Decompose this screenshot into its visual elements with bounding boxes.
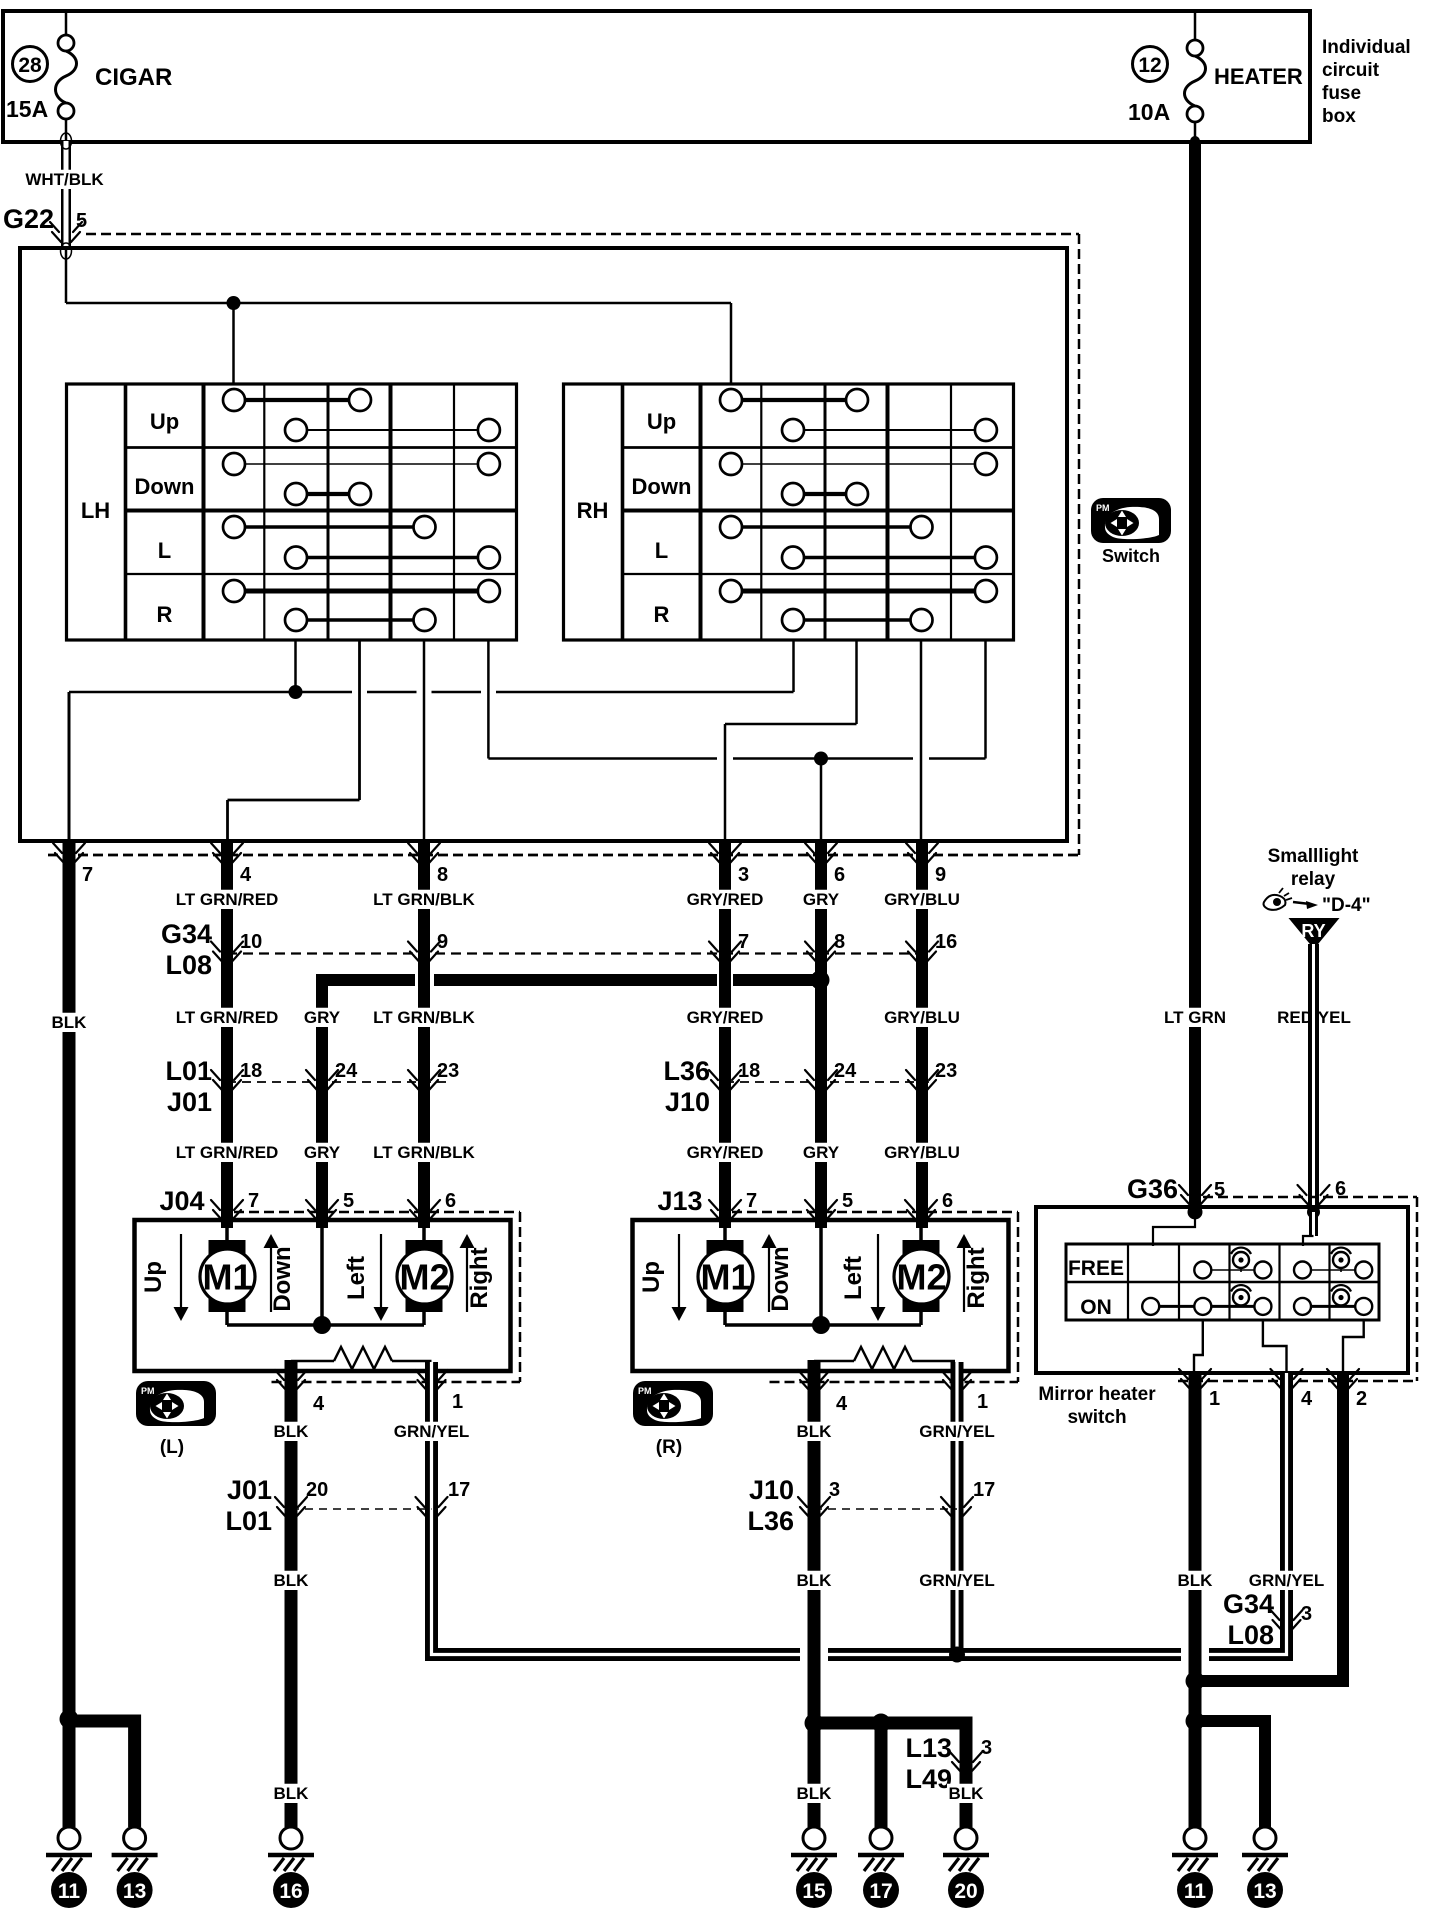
svg-text:PM: PM <box>141 1386 155 1396</box>
svg-text:23: 23 <box>935 1060 957 1082</box>
svg-text:Down: Down <box>269 1246 296 1311</box>
svg-text:8: 8 <box>834 931 845 953</box>
svg-text:6: 6 <box>834 864 845 886</box>
svg-text:GRY/BLU: GRY/BLU <box>884 1008 960 1027</box>
mirror heater resistor (left) <box>291 1360 334 1363</box>
ground 15 <box>791 1827 837 1871</box>
svg-text:BLK: BLK <box>274 1784 310 1803</box>
svg-text:BLK: BLK <box>949 1784 985 1803</box>
svg-text:PM: PM <box>638 1386 652 1396</box>
ground 11 (right) <box>1172 1827 1218 1871</box>
wire colour labels row C <box>176 1143 278 1162</box>
svg-text:17: 17 <box>869 1880 892 1903</box>
svg-text:17: 17 <box>973 1479 995 1501</box>
svg-text:M2: M2 <box>896 1257 946 1298</box>
svg-text:5: 5 <box>842 1190 853 1212</box>
svg-text:20: 20 <box>306 1479 328 1501</box>
svg-text:J01: J01 <box>227 1475 272 1505</box>
svg-text:HEATER: HEATER <box>1214 64 1303 89</box>
svg-text:G22: G22 <box>3 204 54 234</box>
svg-text:BLK: BLK <box>274 1422 310 1441</box>
left mirror assembly dashed boundary <box>234 1211 520 1214</box>
svg-text:18: 18 <box>738 1060 760 1082</box>
RH contact circles <box>720 389 742 411</box>
PM icon left mirror <box>136 1381 216 1426</box>
junction dot GRY bus <box>811 971 830 990</box>
svg-text:13: 13 <box>1253 1880 1276 1903</box>
labels BLK row F middle <box>795 1784 833 1803</box>
svg-text:Up: Up <box>150 409 179 434</box>
svg-text:BLK: BLK <box>274 1571 310 1590</box>
fuse F12 HEATER 10A <box>1185 11 1206 141</box>
svg-text:LT GRN/BLK: LT GRN/BLK <box>373 1008 475 1027</box>
right mirror assembly dashed boundary <box>732 1211 1018 1214</box>
svg-text:J01: J01 <box>167 1087 212 1117</box>
wire GRY pin6 run <box>815 839 827 1228</box>
svg-text:16: 16 <box>279 1880 302 1903</box>
svg-text:7: 7 <box>746 1190 757 1212</box>
wire BLK heater switch pin1 to ground 11 <box>1189 1373 1202 1827</box>
svg-text:R: R <box>654 602 670 627</box>
circled 28 fuse number <box>13 47 48 82</box>
heater switch contact table <box>1066 1244 1379 1320</box>
svg-text:L49: L49 <box>905 1764 952 1794</box>
junction dot G36 pin6 <box>1307 1206 1320 1219</box>
svg-text:3: 3 <box>1301 1603 1312 1625</box>
svg-text:LT GRN/RED: LT GRN/RED <box>176 890 279 909</box>
RH mirror switch table frame <box>564 384 1014 640</box>
svg-text:Up: Up <box>140 1261 167 1293</box>
wire pin6 into heater switch <box>1309 1212 1318 1236</box>
svg-text:15: 15 <box>802 1880 826 1903</box>
svg-text:GRY: GRY <box>304 1143 341 1162</box>
wire GRY/RED pin3 run <box>719 839 731 1228</box>
wire LH terminal c2 drop to common <box>294 640 297 692</box>
svg-text:Mirror heater: Mirror heater <box>1038 1384 1156 1405</box>
svg-text:J13: J13 <box>657 1186 702 1216</box>
wire BLK left mirror pin4 to ground 16 <box>285 1360 298 1827</box>
wire heater switch output pin4 <box>1263 1320 1287 1373</box>
wire RH terminal c4 drop to pin9 <box>920 640 923 843</box>
right mirror connector pins 4 and 1 <box>798 1370 830 1390</box>
svg-text:J10: J10 <box>749 1475 794 1505</box>
mirror switch solid box <box>20 248 1067 841</box>
LH contact circles <box>223 389 245 411</box>
svg-text:24: 24 <box>335 1060 358 1082</box>
svg-text:GRN/YEL: GRN/YEL <box>394 1422 470 1441</box>
svg-text:L01: L01 <box>165 1056 212 1086</box>
svg-text:12: 12 <box>1138 54 1161 77</box>
svg-text:10: 10 <box>240 931 262 953</box>
svg-text:Right: Right <box>963 1247 990 1308</box>
ground 11 (left) <box>46 1827 92 1871</box>
mirror heater switch box <box>1036 1207 1408 1373</box>
svg-text:L08: L08 <box>1227 1620 1274 1650</box>
ground 13 (left) <box>112 1827 158 1871</box>
svg-text:G34: G34 <box>1223 1589 1274 1619</box>
ground 17 <box>858 1827 904 1871</box>
svg-text:GRY/BLU: GRY/BLU <box>884 890 960 909</box>
svg-text:G36: G36 <box>1127 1174 1178 1204</box>
svg-text:GRY/BLU: GRY/BLU <box>884 1143 960 1162</box>
svg-text:BLK: BLK <box>797 1784 833 1803</box>
wire colour labels row A <box>176 890 278 909</box>
right mirror assembly box <box>633 1220 1009 1371</box>
svg-text:M2: M2 <box>399 1257 449 1298</box>
svg-text:Left: Left <box>343 1256 370 1300</box>
wire RH terminal c5 drop <box>984 640 987 759</box>
svg-text:1: 1 <box>977 1391 988 1413</box>
heater switch ON row contacts <box>1151 1305 1263 1308</box>
svg-text:WHT/BLK: WHT/BLK <box>25 170 104 189</box>
LH contact bridge lines <box>234 398 360 402</box>
svg-text:GRN/YEL: GRN/YEL <box>919 1422 995 1441</box>
svg-text:Up: Up <box>638 1261 665 1293</box>
junction dot motor common (left) <box>313 1316 331 1334</box>
svg-text:GRY/RED: GRY/RED <box>687 1143 764 1162</box>
wire BLK branch bar to grounds 17 and 20 <box>814 1723 966 1827</box>
svg-text:17: 17 <box>448 1479 470 1501</box>
svg-text:R: R <box>157 602 173 627</box>
svg-text:4: 4 <box>240 864 252 886</box>
junction dot right BLK branch <box>805 1714 824 1733</box>
junction dot feed to LH switch <box>227 296 241 310</box>
svg-text:GRN/YEL: GRN/YEL <box>1249 1571 1325 1590</box>
individual circuit fuse box outline <box>3 11 1310 142</box>
svg-text:L36: L36 <box>747 1506 794 1536</box>
svg-text:24: 24 <box>834 1060 857 1082</box>
label BLK row E left <box>272 1571 310 1590</box>
svg-text:9: 9 <box>935 864 946 886</box>
svg-text:Smalllight: Smalllight <box>1268 846 1359 867</box>
svg-text:23: 23 <box>437 1060 459 1082</box>
wire GRN/YEL mid segment (double line) <box>828 1648 1181 1661</box>
svg-text:ON: ON <box>1080 1296 1112 1319</box>
svg-text:3: 3 <box>981 1737 992 1759</box>
wire LT GRN/BLK pin8 run <box>418 839 430 1228</box>
wire motor commons (left) <box>225 1311 229 1325</box>
svg-text:18: 18 <box>240 1060 262 1082</box>
left mirror assembly box <box>135 1220 511 1371</box>
svg-text:Down: Down <box>135 474 195 499</box>
wire heater switch output pin1 <box>1194 1320 1203 1373</box>
wire motor commons (right) <box>723 1311 727 1325</box>
svg-text:BLK: BLK <box>52 1013 88 1032</box>
PM icon right mirror <box>633 1381 713 1426</box>
junction dot to pin6 <box>814 752 828 766</box>
label WHT/BLK <box>26 170 104 189</box>
svg-text:RY: RY <box>1301 921 1325 941</box>
mirror heater resistor (right) <box>814 1360 854 1363</box>
svg-text:Switch: Switch <box>1102 546 1160 566</box>
svg-text:LT GRN/BLK: LT GRN/BLK <box>373 890 475 909</box>
junction dot left BLK branch <box>60 1710 79 1729</box>
labels BLK GRN/YEL row D right <box>795 1422 833 1441</box>
svg-text:GRY/RED: GRY/RED <box>687 1008 764 1027</box>
svg-text:RH: RH <box>577 498 609 523</box>
svg-text:2: 2 <box>1356 1388 1367 1410</box>
label BLK row F left <box>272 1784 310 1803</box>
svg-text:16: 16 <box>935 931 957 953</box>
svg-text:13: 13 <box>123 1880 146 1903</box>
heater switch FREE row contacts <box>1203 1269 1263 1271</box>
wire RED/YEL from smalllight relay (double line) <box>1308 944 1319 1212</box>
svg-text:GRY/RED: GRY/RED <box>687 890 764 909</box>
ground 16 <box>268 1827 314 1871</box>
svg-text:fuse: fuse <box>1322 83 1361 104</box>
mirror switch connector pins at dashed line <box>53 843 85 863</box>
svg-text:L: L <box>655 538 668 563</box>
wire feed drop to RH switch <box>730 303 733 385</box>
circled 12 fuse number <box>1133 47 1168 82</box>
svg-text:BLK: BLK <box>797 1571 833 1590</box>
svg-text:3: 3 <box>829 1479 840 1501</box>
junction dot motor common (right) <box>812 1316 830 1334</box>
wire branch to ground 13 (right) <box>1195 1721 1265 1827</box>
motor M2 (right) <box>919 1220 923 1242</box>
svg-text:LT GRN: LT GRN <box>1164 1008 1226 1027</box>
svg-text:Down: Down <box>767 1246 794 1311</box>
wire GRY/BLU pin9 run <box>916 839 928 1228</box>
junction dot BLK branch to ground 13 <box>1186 1712 1205 1731</box>
wire GRY branch drop to J04 pin5 <box>322 980 415 1228</box>
svg-text:4: 4 <box>836 1393 848 1415</box>
wire LT GRN/RED pin4 run <box>221 839 233 1228</box>
svg-text:PM: PM <box>1096 503 1110 513</box>
svg-text:BLK: BLK <box>1178 1571 1214 1590</box>
svg-text:J04: J04 <box>159 1186 204 1216</box>
heater switch connector pins 1 4 2 <box>1179 1369 1211 1389</box>
svg-text:8: 8 <box>437 864 448 886</box>
svg-text:(R): (R) <box>656 1437 682 1458</box>
junction dot GRN/YEL right pin1 <box>949 1647 965 1663</box>
eye icon <box>1264 895 1286 910</box>
wire BLK right mirror pin4 to grounds <box>808 1360 821 1827</box>
svg-text:(L): (L) <box>160 1437 184 1458</box>
labels row E middle <box>795 1571 833 1590</box>
svg-text:L: L <box>158 538 171 563</box>
svg-text:4: 4 <box>1301 1388 1313 1410</box>
svg-text:FREE: FREE <box>1068 1257 1124 1280</box>
svg-text:M1: M1 <box>202 1257 252 1298</box>
svg-text:"D-4": "D-4" <box>1322 895 1371 916</box>
svg-text:Right: Right <box>466 1247 493 1308</box>
wire GRN/YEL left mirror pin1 (double line) <box>432 1362 801 1655</box>
mirror switch dashed boundary <box>86 233 1079 236</box>
svg-text:1: 1 <box>1209 1388 1220 1410</box>
svg-text:6: 6 <box>942 1190 953 1212</box>
svg-text:switch: switch <box>1067 1407 1126 1428</box>
wire RH terminal c3 drop to pin3 <box>855 640 858 724</box>
svg-text:28: 28 <box>18 54 42 77</box>
motor M2 (left) <box>422 1220 426 1242</box>
wire branch to ground 13 (left) <box>69 1721 135 1827</box>
svg-text:GRY: GRY <box>803 890 840 909</box>
svg-text:Down: Down <box>632 474 692 499</box>
svg-text:circuit: circuit <box>1322 60 1380 81</box>
junction dot pin2 to BLK <box>1186 1672 1205 1691</box>
svg-text:J10: J10 <box>665 1087 710 1117</box>
svg-text:relay: relay <box>1291 869 1336 890</box>
svg-text:GRY: GRY <box>304 1008 341 1027</box>
svg-text:GRN/YEL: GRN/YEL <box>919 1571 995 1590</box>
wire RH terminal c2 drop <box>792 640 795 692</box>
wire WHT/BLK from CIGAR fuse to mirror switch (double line) <box>61 141 71 249</box>
wire GRN/YEL right mirror pin1 (double line) <box>951 1362 964 1655</box>
wire heater switch output pin2 <box>1343 1320 1364 1373</box>
motor M1 (right) <box>723 1220 727 1242</box>
svg-text:11: 11 <box>58 1880 81 1903</box>
RH table row lines <box>623 446 1014 449</box>
wire GRN/YEL heater switch pin4 (double line) <box>1209 1373 1287 1655</box>
wire GRY branch bus below G34/L08 (with crossover gaps) <box>434 974 717 986</box>
svg-text:6: 6 <box>445 1190 456 1212</box>
wire c5 bus LH-RH (with crossover gaps) <box>488 757 717 760</box>
mirror heater switch dashed boundary <box>1203 1196 1417 1199</box>
wire LH terminal c5 drop <box>487 640 490 759</box>
svg-text:11: 11 <box>1184 1880 1207 1903</box>
svg-text:L36: L36 <box>663 1056 710 1086</box>
power mirror switch icon <box>1091 498 1171 543</box>
labels BLK GRN/YEL row D left <box>272 1422 310 1441</box>
wire feed drop to LH switch <box>232 303 235 385</box>
svg-text:LT GRN/RED: LT GRN/RED <box>176 1143 279 1162</box>
svg-text:GRY: GRY <box>803 1143 840 1162</box>
wire BLK pin7 run to ground <box>63 839 76 1827</box>
wire colour labels row B <box>50 1013 88 1032</box>
svg-text:7: 7 <box>248 1190 259 1212</box>
svg-text:CIGAR: CIGAR <box>95 64 172 91</box>
wire LH terminal c3 drop to pin4 <box>358 640 361 800</box>
svg-text:15A: 15A <box>6 96 48 122</box>
wire pin6 drop <box>820 759 823 844</box>
svg-text:LH: LH <box>81 498 110 523</box>
wire feed inside switch from G22 <box>65 248 68 303</box>
svg-text:5: 5 <box>343 1190 354 1212</box>
svg-text:Up: Up <box>647 409 676 434</box>
svg-text:4: 4 <box>313 1393 325 1415</box>
LH mirror switch table frame <box>67 384 517 640</box>
RH contact bridge lines <box>731 398 857 402</box>
svg-text:LT GRN/BLK: LT GRN/BLK <box>373 1143 475 1162</box>
junction dot common bus <box>289 685 303 699</box>
fuse F28 CIGAR 15A <box>56 11 77 141</box>
svg-text:7: 7 <box>82 864 93 886</box>
svg-text:3: 3 <box>738 864 749 886</box>
ground 20 <box>943 1827 989 1871</box>
svg-text:20: 20 <box>954 1880 977 1903</box>
svg-text:LT GRN/RED: LT GRN/RED <box>176 1008 279 1027</box>
RH table verticals <box>621 384 625 640</box>
svg-text:L13: L13 <box>905 1733 952 1763</box>
svg-text:L01: L01 <box>225 1506 272 1536</box>
junction dot G36 pin5 <box>1188 1205 1203 1220</box>
LH table verticals <box>124 384 128 640</box>
wire GRN/YEL pin2 branch <box>1195 1373 1343 1681</box>
connector bubble at fuse box exit <box>61 133 72 149</box>
wire pin7 drop <box>68 692 71 843</box>
svg-text:Left: Left <box>840 1256 867 1300</box>
relay RY triangle <box>1289 918 1340 949</box>
motor M1 (left) <box>225 1220 229 1242</box>
ground 13 (right) <box>1242 1827 1288 1871</box>
svg-text:L08: L08 <box>165 950 212 980</box>
svg-text:7: 7 <box>738 931 749 953</box>
svg-text:Individual: Individual <box>1322 37 1411 58</box>
LH table row lines <box>126 446 517 449</box>
svg-text:BLK: BLK <box>797 1422 833 1441</box>
left mirror connector pins 4 and 1 <box>275 1370 307 1390</box>
svg-text:10A: 10A <box>1128 99 1170 125</box>
wire common bus to pin7 and RH c2 (with crossover gaps) <box>69 691 352 694</box>
wire pin5 into heater switch <box>1153 1212 1195 1246</box>
svg-text:1: 1 <box>452 1391 463 1413</box>
svg-text:G34: G34 <box>161 919 212 949</box>
labels BLK GRN/YEL row E right <box>1176 1571 1214 1590</box>
svg-text:box: box <box>1322 106 1356 127</box>
wire LH terminal c4 drop to pin8 <box>423 640 426 843</box>
wire LT GRN heater feed from fuse box <box>1190 136 1200 146</box>
svg-text:M1: M1 <box>700 1257 750 1298</box>
svg-text:9: 9 <box>437 931 448 953</box>
arrow to D-4 <box>1293 902 1310 904</box>
